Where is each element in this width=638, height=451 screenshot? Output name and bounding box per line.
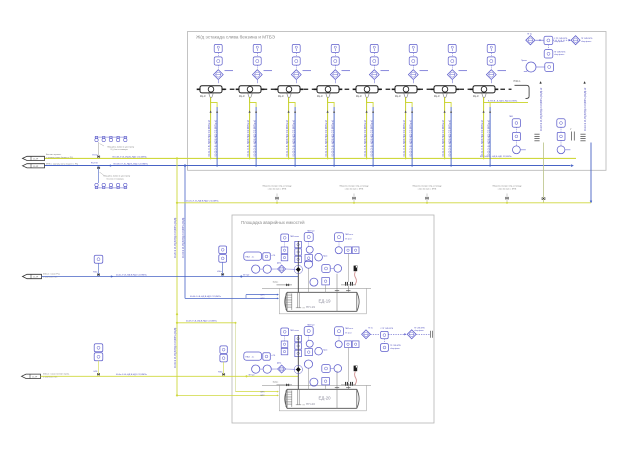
svg-text:ЗФ №0: ЗФ №0	[243, 274, 249, 277]
svg-text:/0_бхх от замера: /0_бхх от замера	[111, 149, 129, 151]
svg-text:слив бензин с МТБ: слив бензин с МТБ	[345, 189, 364, 191]
svg-text:НЗФ: НЗФ	[94, 370, 98, 373]
svg-text:00-02-Э -В,-НД В,НД1 С/2,6МПа: 00-02-Э -В,-НД В,НД1 С/2,6МПа х6	[254, 119, 256, 156]
svg-text:Приб: Приб	[323, 255, 327, 257]
svg-text:ПАЗ отказ: ПАЗ отказ	[290, 329, 299, 332]
svg-text:ШТ5: ШТ5	[261, 294, 265, 296]
svg-text:00-04-Э -В,-НД В,НД1 С/2,6МПа: 00-04-Э -В,-НД В,НД1 С/2,6МПа (СЦБ)	[183, 217, 185, 258]
svg-text:00-02-Э -В,-НД В,НД1 С/2,6МПа: 00-02-Э -В,-НД В,НД1 С/2,6МПа х6	[449, 119, 451, 156]
svg-text:В, МЭ-В, -В,-НД В,-НД1 2/2,6МП: В, МЭ-В, -В,-НД В,-НД1 2/2,6МПа	[488, 101, 518, 103]
svg-text:ПАЗ→1с: ПАЗ→1с	[245, 255, 255, 258]
svg-text:ПАЗ №0: ПАЗ №0	[307, 323, 314, 326]
svg-text:00-02-Э -В,-НД В,НД1 С/2,6МПа: 00-02-Э -В,-НД В,НД1 С/2,6МПа х6	[293, 119, 295, 156]
svg-text:Избыт. газов РЦ: Избыт. газов РЦ	[43, 274, 60, 276]
svg-text:В, МЭ-В, -В, -НД В,-НД1 2/2,6М: В, МЭ-В, -В, -НД В,-НД1 2/2,6МПа	[480, 156, 512, 158]
svg-text:/0_бхх от замера: /0_бхх от замера	[107, 178, 125, 180]
svg-text:Площадка аварийных емкостей: Площадка аварийных емкостей	[241, 220, 305, 225]
svg-text:00-01-Э -В,-НД В,НД1 С/2,6МПа: 00-01-Э -В,-НД В,НД1 С/2,6МПа х6	[443, 119, 445, 156]
svg-text:с границ зоны башен с РЦ: с границ зоны башен с РЦ	[46, 157, 73, 159]
svg-text:ВО-ВО-Э -В,-НД В,-НД1 С/2,6МП: ВО-ВО-Э -В,-НД В,-НД1 С/2,6МПа	[114, 164, 149, 166]
svg-text:00-02-Э -В,-НД В,НД1 С/2,6МПа: 00-02-Э -В,-НД В,НД1 С/2,6МПа х6	[488, 119, 490, 156]
svg-text:ПГ СИБ МТБ: ПГ СИБ МТБ	[414, 327, 426, 329]
svg-text:ЗФ №0: ЗФ №0	[248, 373, 254, 376]
svg-text:00-02-Э -В,-НД В,НД1 С/2,6МПа: 00-02-Э -В,-НД В,НД1 С/2,6МПа х6	[215, 119, 217, 156]
svg-text:УЗ вент: УЗ вент	[345, 333, 352, 335]
svg-text:ДК№: ДК№	[277, 262, 281, 265]
svg-text:КЦ-1/: КЦ-1/	[473, 96, 479, 98]
svg-text:ПЭС-1: ПЭС-1	[514, 81, 522, 83]
svg-text:Избыт. газов бензин прям.: Избыт. газов бензин прям.	[43, 373, 70, 375]
svg-text:НЗ№: НЗ№	[217, 270, 222, 273]
svg-text:слив бензин с МТБ: слив бензин с МТБ	[268, 189, 287, 191]
svg-text:ПГ №: ПГ №	[368, 327, 373, 330]
svg-text:сбор факел: сбор факел	[390, 347, 400, 350]
svg-text:00-02-Э -В,-НД В,НД1 С/2,6МПа: 00-02-Э -В,-НД В,НД1 С/2,6МПа х6	[410, 119, 412, 156]
svg-text:00-01-Э -В,-НД В,НД1 С/2,6МПа: 00-01-Э -В,-НД В,НД1 С/2,6МПа х6	[209, 119, 211, 156]
svg-text:НЗ№: НЗ№	[218, 371, 223, 374]
svg-text:00-01-Э -В,-НД В,НД1 С/2,6МПа: 00-01-Э -В,-НД В,НД1 С/2,6МПа х6	[365, 119, 367, 156]
svg-text:Приб: Приб	[323, 349, 327, 351]
svg-text:00-09-Э -В,-НД В,НД1 С/2,6МПа: 00-09-Э -В,-НД В,НД1 С/2,6МПа	[186, 321, 218, 323]
svg-text:сбор факел: сбор факел	[581, 40, 591, 43]
svg-text:КЦ-1/: КЦ-1/	[239, 96, 245, 98]
svg-text:Запас: Запас	[273, 382, 279, 384]
svg-text:00-0х-Э -В,-НД В,НД1 С/2,6МПа: 00-0х-Э -В,-НД В,НД1 С/2,6МПа	[116, 374, 148, 376]
svg-text:ПАЗ вент: ПАЗ вент	[345, 327, 353, 330]
svg-text:ШТ2: ШТ2	[261, 395, 265, 397]
svg-text:ЕД-19: ЕД-19	[319, 299, 332, 304]
svg-text:КЦ-1/: КЦ-1/	[395, 96, 401, 98]
svg-text:00-20-Э -В,-НД В,НД1 С/2,6МПа: 00-20-Э -В,-НД В,НД1 С/2,6МПа	[186, 201, 219, 203]
svg-text:Машина въезд в ж/д эстакаду: Машина въезд в ж/д эстакаду	[413, 186, 443, 188]
svg-text:КЦ-1/: КЦ-1/	[434, 96, 440, 98]
svg-text:11-3Р: 11-3Р	[33, 277, 39, 279]
svg-text:Машина въезд в ж/д эстакаду: Машина въезд в ж/д эстакаду	[263, 186, 293, 188]
svg-text:НП-20: НП-20	[306, 402, 315, 406]
svg-text:11-3Р: 11-3Р	[33, 166, 39, 168]
svg-text:00-01-Э -В,-НД В,НД1 С/2,6МПа: 00-01-Э -В,-НД В,НД1 С/2,6МПа х6	[482, 119, 484, 156]
svg-text:Машина забив в цистерну: Машина забив в цистерну	[104, 176, 131, 178]
svg-text:Ж/д эстакада слива бензина и М: Ж/д эстакада слива бензина и МТБЭ	[196, 35, 276, 40]
svg-text:00-01-Э -В,-НД В,НД1 С/2,6МПа: 00-01-Э -В,-НД В,НД1 С/2,6МПа х6	[287, 119, 289, 156]
svg-text:00-19-Э -В,-НД В,НД1 С/2,6МПа: 00-19-Э -В,-НД В,НД1 С/2,6МПа (СЦБ) х2	[585, 87, 587, 131]
svg-text:ПАЗ→1с: ПАЗ→1с	[245, 355, 255, 358]
svg-text:00-01-Э -В,-НД В,НД1 С/2,6МПа: 00-01-Э -В,-НД В,НД1 С/2,6МПа х6	[248, 119, 250, 156]
svg-text:ЕД-20: ЕД-20	[319, 396, 332, 401]
svg-text:МТБ с границ зоны башен с РЦ: МТБ с границ зоны башен с РЦ	[46, 164, 78, 166]
svg-text:С ПГ СИБ МТБ: С ПГ СИБ МТБ	[380, 328, 393, 330]
svg-text:00-18-Э -В,-НД В,НД1 С/2,6МПа: 00-18-Э -В,-НД В,НД1 С/2,6МПа (СЦБ) х2	[541, 87, 543, 131]
svg-text:УЗ вент: УЗ вент	[345, 239, 352, 241]
svg-text:ШТ5: ШТ5	[261, 391, 265, 393]
svg-text:00-01-Э -В,-НД В,НД1 С/2,6МПа: 00-01-Э -В,-НД В,НД1 С/2,6МПа х6	[404, 119, 406, 156]
svg-text:Машина въезд в ж/д эстакаду: Машина въезд в ж/д эстакаду	[340, 186, 370, 188]
svg-text:ПАЗ отказ: ПАЗ отказ	[290, 235, 299, 238]
svg-text:ДК№: ДК№	[277, 362, 281, 365]
svg-text:НЗ-УЗО: НЗ-УЗО	[91, 162, 98, 164]
svg-text:Машина въезд в ж/д эстакаду: Машина въезд в ж/д эстакаду	[493, 186, 523, 188]
svg-text:ПГ СИБ МТБ: ПГ СИБ МТБ	[390, 345, 402, 347]
svg-text:11-3Р: 11-3Р	[33, 158, 39, 160]
svg-text:ПАЗ №0: ПАЗ №0	[307, 229, 314, 232]
svg-text:сбор факел: сбор факел	[414, 329, 424, 332]
svg-text:Машина забив в цистерну: Машина забив в цистерну	[108, 146, 135, 148]
svg-text:слив бензин с МТБ: слив бензин с МТБ	[418, 189, 437, 191]
svg-text:00-04-Э -В,-НД В,НД1 С/2,6МПа: 00-04-Э -В,-НД В,НД1 С/2,6МПа	[190, 296, 222, 298]
svg-text:УЗО№: УЗО№	[92, 153, 98, 156]
svg-text:00-09-Э -В,-НД В,НД1 С/2,6МПа: 00-09-Э -В,-НД В,НД1 С/2,6МПа (СЦБ)	[175, 327, 177, 368]
svg-text:00-0х-Э -В,-НД В,НД1 С/2,6МПа: 00-0х-Э -В,-НД В,НД1 С/2,6МПа	[116, 274, 148, 276]
svg-text:00-02-Э -В,-НД В,НД1 С/2,6МПа: 00-02-Э -В,-НД В,НД1 С/2,6МПа х6	[332, 119, 334, 156]
svg-text:Запас: Запас	[273, 282, 279, 284]
svg-text:НП-19: НП-19	[306, 305, 315, 309]
svg-text:00-01-Э -В,-НД В,НД1 С/2,6МПа: 00-01-Э -В,-НД В,НД1 С/2,6МПа х6	[326, 119, 328, 156]
svg-text:слив бензин с МТБ: слив бензин с МТБ	[498, 189, 517, 191]
svg-text:КЦ-1/: КЦ-1/	[200, 96, 206, 98]
svg-text:КЦ-1/: КЦ-1/	[317, 96, 323, 98]
svg-text:ПАЗ вент: ПАЗ вент	[345, 233, 353, 236]
svg-text:Приям: Приям	[521, 60, 527, 62]
svg-text:ВО-1В-Э -В,-НД В,-НД1 С/2,6МП: ВО-1В-Э -В,-НД В,-НД1 С/2,6МПа	[113, 156, 148, 158]
svg-text:НЗ№: НЗ№	[93, 270, 98, 273]
svg-text:КЦ-1/: КЦ-1/	[356, 96, 362, 98]
svg-text:11-3Р: 11-3Р	[32, 376, 38, 378]
svg-text:00-20-Э -В,-НД В,НД1 С/2,6МПа: 00-20-Э -В,-НД В,НД1 С/2,6МПа (СЦБ)	[175, 217, 177, 258]
svg-text:Бензин прямог.: Бензин прямог.	[46, 154, 62, 156]
svg-text:ШТ2: ШТ2	[261, 298, 265, 300]
svg-text:КЦ-1/: КЦ-1/	[278, 96, 284, 98]
svg-text:00-02-Э -В,-НД В,НД1 С/2,6МПа: 00-02-Э -В,-НД В,НД1 С/2,6МПа х6	[371, 119, 373, 156]
svg-text:ПГ №: ПГ №	[527, 33, 532, 36]
svg-text:сбор факел: сбор факел	[554, 53, 564, 56]
